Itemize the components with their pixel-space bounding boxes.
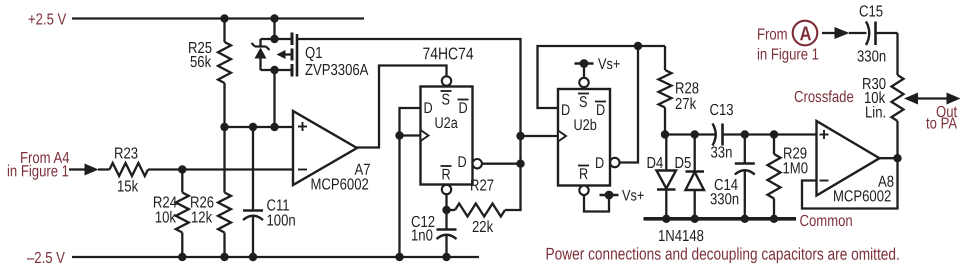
- svg-text:MCP6002: MCP6002: [310, 176, 368, 194]
- pin S-bar of U2a: [441, 76, 452, 109]
- junction R23/R24 node: [178, 165, 186, 173]
- junction C14 on common: [741, 215, 749, 223]
- junction U2a clock/D node: [395, 131, 403, 139]
- pin bubble U2a D output: [473, 159, 482, 168]
- wire U2b R-bar to Vs+: [584, 195, 609, 212]
- label C13 33n: [709, 102, 733, 162]
- wire common rail: [644, 217, 797, 221]
- svg-text:D: D: [595, 155, 604, 173]
- junction C11 on -2.5V rail: [249, 253, 257, 261]
- resistor R26: [218, 127, 231, 257]
- svg-text:330n: 330n: [857, 48, 886, 66]
- svg-text:Vs+: Vs+: [622, 187, 644, 205]
- junction on +2.5V rail at Q1 source: [270, 14, 278, 22]
- wire U2a clock input: [400, 134, 421, 136]
- wire input to R23: [98, 168, 110, 170]
- pin D-bar output label of U2a: [458, 100, 469, 118]
- pin D output of U2b: [595, 155, 604, 173]
- junction C11 node: [249, 123, 257, 131]
- label D4: [646, 155, 663, 173]
- node A circle: [793, 21, 818, 46]
- svg-text:R27: R27: [470, 177, 494, 195]
- resistor R23: [110, 163, 149, 176]
- label Crossfade: [794, 89, 854, 107]
- pin D output of U2a: [457, 154, 466, 172]
- wire U2a D/CLK to -2.5V rail: [398, 136, 400, 258]
- label R27 22k: [470, 177, 494, 236]
- resistor R29: [768, 135, 781, 219]
- wire U2b output to feedback: [620, 46, 639, 163]
- svg-text:74HC74: 74HC74: [422, 45, 473, 64]
- wire A7 output to U2a set: [357, 66, 447, 148]
- junction C14 node: [741, 130, 749, 138]
- label From: [757, 26, 788, 44]
- label Out to PA: [926, 104, 957, 133]
- label C12 1n0: [411, 214, 435, 245]
- transistor Q1 body: [261, 33, 298, 77]
- wire Q1 gate to U2a output node: [297, 39, 521, 164]
- resistor R28: [659, 46, 672, 135]
- svg-text:22k: 22k: [472, 219, 494, 237]
- svg-text:27k: 27k: [675, 96, 697, 114]
- wire U2a R-bar lead: [445, 194, 447, 210]
- label R30 10k Lin.: [862, 76, 886, 122]
- diode D5: [686, 135, 705, 219]
- svg-text:R: R: [441, 166, 450, 184]
- wire arrow to C15: [849, 32, 867, 34]
- svg-text:in Figure 1: in Figure 1: [757, 46, 819, 64]
- svg-text:Common: Common: [799, 213, 852, 231]
- junction R26 on -2.5V rail: [220, 253, 228, 261]
- junction feedback/R28 line: [634, 42, 642, 50]
- svg-text:MCP6002: MCP6002: [833, 188, 891, 206]
- wire Q1 drain to node: [273, 70, 275, 127]
- label R29 1M0: [782, 145, 808, 177]
- svg-text:15k: 15k: [117, 178, 139, 196]
- pin R-bar of U2a: [441, 166, 452, 194]
- label From A4 in Figure 1: [7, 150, 70, 181]
- flip-flop U2b: [558, 89, 610, 186]
- svg-text:Q1: Q1: [305, 45, 323, 63]
- svg-text:D4: D4: [646, 155, 663, 173]
- label D5: [674, 155, 691, 173]
- zener body diode of Q1: [252, 43, 270, 59]
- svg-text:330n: 330n: [710, 191, 739, 209]
- op-amp A8: [817, 121, 880, 196]
- label R26 12k: [190, 194, 214, 227]
- svg-text:D5: D5: [674, 155, 691, 173]
- wire -2.5V rail: [72, 256, 479, 258]
- resistor R27: [447, 164, 521, 217]
- input arrow: [85, 164, 99, 176]
- capacitor C14: [735, 135, 755, 219]
- diode D4: [657, 135, 677, 219]
- svg-text:C13: C13: [709, 102, 733, 120]
- wire input lead: [69, 168, 85, 170]
- junction gate wire / U2b clock: [516, 132, 524, 140]
- capacitor C12: [437, 210, 457, 257]
- wire U2a D input tied to clock line: [400, 108, 421, 136]
- wire U2b S-bar to Vs+: [583, 64, 585, 78]
- resistor R24: [176, 170, 189, 258]
- wire +2.5V rail: [72, 17, 364, 19]
- junction R-bar/C12/R27 node: [442, 206, 450, 214]
- svg-text:–2.5 V: –2.5 V: [27, 250, 65, 268]
- svg-text:S: S: [579, 94, 587, 112]
- label A8 MCP6002: [833, 174, 894, 206]
- label U2a: [434, 115, 457, 133]
- label Common: [799, 213, 852, 231]
- svg-text:1M0: 1M0: [782, 160, 808, 178]
- junction on -2.5V rail: [395, 253, 403, 261]
- pin D input of U2a: [423, 100, 432, 118]
- label 74HC74: [422, 45, 473, 64]
- wire Q1 source: [273, 19, 275, 40]
- svg-text:1N4148: 1N4148: [658, 228, 704, 246]
- svg-text:U2a: U2a: [434, 115, 457, 133]
- svg-text:Vs+: Vs+: [598, 56, 620, 74]
- wire C13 to A8 + input: [723, 133, 817, 135]
- capacitor C13: [713, 124, 723, 146]
- power symbol Vs+ top: [575, 56, 621, 74]
- svg-text:D: D: [596, 102, 605, 120]
- pin R-bar of U2b: [578, 166, 589, 196]
- wire node A lead: [822, 32, 836, 34]
- svg-text:Lin.: Lin.: [865, 104, 886, 122]
- op-amp A7: [293, 111, 357, 185]
- svg-text:10k: 10k: [155, 209, 177, 227]
- svg-text:S: S: [441, 91, 449, 109]
- label C11 100n: [266, 197, 295, 230]
- junction U2a output node: [516, 160, 524, 168]
- label R25 56k: [188, 40, 212, 72]
- label 1N4148: [658, 228, 704, 246]
- svg-text:to PA: to PA: [926, 115, 957, 133]
- junction D4 on common: [662, 215, 670, 223]
- junction Q1 drain node: [270, 123, 278, 131]
- wire A7 + input node: [225, 126, 294, 128]
- svg-text:+2.5 V: +2.5 V: [28, 11, 67, 29]
- capacitor C11: [243, 127, 263, 257]
- pin bubble U2b D output: [610, 158, 619, 167]
- svg-text:ZVP3306A: ZVP3306A: [305, 62, 369, 80]
- svg-text:R: R: [579, 166, 588, 184]
- label U2b: [573, 117, 596, 135]
- output arrow to PA: [947, 93, 961, 105]
- label R24 10k: [153, 194, 177, 227]
- svg-text:56k: 56k: [190, 54, 212, 72]
- wire A8 output: [880, 157, 898, 159]
- svg-text:in Figure 1: in Figure 1: [7, 163, 69, 181]
- svg-text:U2b: U2b: [573, 117, 596, 135]
- wiper arrow of R30: [904, 93, 948, 105]
- junction R24 on -2.5V rail: [178, 253, 186, 261]
- pin D input of U2b: [561, 102, 570, 120]
- svg-text:100n: 100n: [266, 212, 295, 230]
- net label -2.5 V: [27, 250, 65, 268]
- junction R29 on common: [770, 215, 778, 223]
- resistor R30 potentiometer: [892, 33, 904, 158]
- wire U2a output to U2b clock: [521, 135, 559, 137]
- power symbol Vs+ bottom: [600, 187, 645, 205]
- wire U2b D-bar feedback to D input: [538, 46, 666, 108]
- junction on +2.5V rail at R25: [220, 14, 228, 22]
- junction R28 bottom node: [661, 130, 669, 138]
- junction R25/R26 node: [220, 123, 228, 131]
- label R23 15k: [114, 145, 139, 196]
- wire R23 to A7 inverting input: [148, 168, 293, 170]
- note power connections: [545, 245, 899, 264]
- label Q1 ZVP3306A: [305, 45, 369, 80]
- label in Figure 1 (right): [757, 46, 819, 64]
- junction D5 on common: [691, 215, 699, 223]
- junction D5 node: [691, 130, 699, 138]
- svg-text:1n0: 1n0: [411, 227, 433, 245]
- capacitor C15: [866, 22, 898, 46]
- label C15 330n: [857, 3, 886, 66]
- label C14 330n: [710, 177, 739, 209]
- junction R29 node: [770, 130, 778, 138]
- svg-text:D: D: [561, 102, 570, 120]
- junction Q1 drain: [270, 66, 278, 74]
- wire A8 feedback: [802, 158, 898, 208]
- wire R28 node to C13: [665, 133, 716, 135]
- svg-text:D: D: [458, 100, 467, 118]
- svg-text:From: From: [757, 26, 788, 44]
- label R28 27k: [675, 80, 699, 113]
- flip-flop U2a: [421, 87, 473, 185]
- junction C12 on -2.5V rail: [442, 253, 450, 261]
- svg-text:12k: 12k: [191, 209, 213, 227]
- svg-text:R23: R23: [114, 145, 138, 163]
- svg-text:Power connections and decoupli: Power connections and decoupling capacit…: [545, 245, 899, 264]
- junction A8 output node: [893, 154, 901, 162]
- svg-text:Crossfade: Crossfade: [794, 89, 854, 107]
- svg-text:D: D: [457, 154, 466, 172]
- pin S-bar of U2b: [578, 78, 589, 112]
- resistor R25: [218, 19, 231, 128]
- wire U2a output: [482, 163, 521, 165]
- svg-text:C15: C15: [859, 3, 883, 21]
- svg-text:D: D: [423, 100, 432, 118]
- net label +2.5 V: [28, 11, 67, 29]
- pin D-bar output label of U2b: [595, 102, 606, 120]
- junction Q1 source/body-diode: [270, 35, 278, 43]
- arrow from node A: [835, 27, 850, 39]
- svg-text:A: A: [800, 22, 812, 45]
- svg-text:33n: 33n: [710, 144, 732, 162]
- label A7 MCP6002: [310, 162, 370, 194]
